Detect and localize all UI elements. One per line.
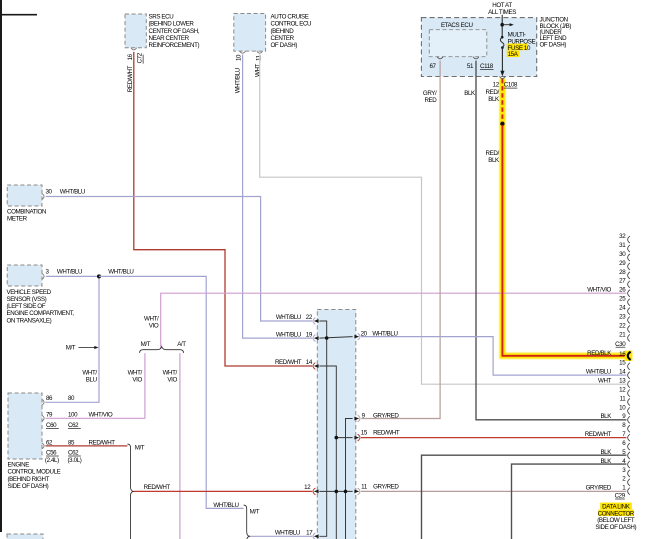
svg-text:WHT/: WHT/ bbox=[144, 316, 159, 323]
svg-text:CONTROL MODULE: CONTROL MODULE bbox=[8, 469, 61, 476]
ETACS bump pin 51 bbox=[473, 57, 479, 59]
svg-text:WHT/BLU: WHT/BLU bbox=[276, 314, 301, 321]
svg-text:CENTER OF DASH,: CENTER OF DASH, bbox=[149, 28, 200, 35]
ETACS bump pin 67 bbox=[437, 57, 443, 59]
joint connector female pin 20 bbox=[358, 333, 360, 340]
junction node hot feed bbox=[500, 23, 504, 27]
svg-text:22: 22 bbox=[306, 314, 313, 321]
wire RED/WHT joint pin 15 to DLC pin 7 bbox=[361, 437, 626, 439]
wire WHT/BLU VSS node to merge brace bbox=[99, 276, 244, 508]
wire RED/BLK highlighted to DLC pin 16 bbox=[502, 125, 627, 356]
svg-text:RED/BLK: RED/BLK bbox=[587, 350, 612, 357]
svg-text:(2.4L): (2.4L) bbox=[45, 457, 59, 464]
svg-text:80: 80 bbox=[68, 395, 75, 402]
svg-text:22: 22 bbox=[619, 322, 626, 329]
svg-text:ON TRANSAXLE): ON TRANSAXLE) bbox=[7, 317, 52, 324]
svg-text:BLK: BLK bbox=[488, 96, 500, 103]
joint connector internal pin19-20 bbox=[319, 337, 352, 339]
svg-text:26: 26 bbox=[619, 287, 626, 294]
svg-text:14: 14 bbox=[306, 359, 313, 366]
wire WHT/BLU joint pin 20 to DLC pin 14 bbox=[361, 337, 626, 376]
cruise bump pin 10 bbox=[240, 51, 246, 53]
svg-text:79: 79 bbox=[46, 412, 53, 419]
data link connector text bbox=[600, 503, 632, 510]
svg-text:30: 30 bbox=[46, 188, 53, 195]
svg-text:WHT/: WHT/ bbox=[163, 369, 178, 376]
joint connector female pin 14 bbox=[313, 363, 315, 370]
junction node RED/BLK bbox=[500, 122, 504, 126]
svg-text:M/T: M/T bbox=[135, 445, 145, 452]
svg-text:VIO: VIO bbox=[167, 376, 177, 383]
joint connector male pin left y321.0 bbox=[314, 319, 319, 323]
svg-text:23: 23 bbox=[619, 313, 626, 320]
wire BLK offpage to DLC pin 5 bbox=[422, 455, 627, 539]
svg-text:REINFORCEMENT): REINFORCEMENT) bbox=[149, 42, 200, 49]
wire WHT/VIO A/T branch off-page bbox=[179, 353, 181, 539]
svg-text:30: 30 bbox=[619, 251, 626, 258]
svg-text:RED/WHT: RED/WHT bbox=[373, 430, 400, 437]
wire WHT/VIO M/T branch to ECM pin 79/100 bbox=[45, 353, 144, 418]
joint connector internal pin15 stub bbox=[336, 437, 352, 439]
svg-text:100: 100 bbox=[68, 412, 78, 419]
wire WHT/VIO to DLC pin 26 bbox=[161, 293, 627, 349]
svg-text:10: 10 bbox=[619, 404, 626, 411]
joint connector male pin left y338.1 bbox=[314, 336, 319, 340]
svg-text:C62: C62 bbox=[68, 422, 79, 429]
wire WHT/BLU VSS to ECM pin 86/80 bbox=[45, 276, 99, 402]
svg-text:28: 28 bbox=[619, 269, 626, 276]
svg-text:BLK: BLK bbox=[464, 90, 476, 97]
svg-text:M/T: M/T bbox=[250, 509, 260, 516]
SRS ECU box bbox=[125, 14, 146, 48]
VSS bump pin 3 bbox=[42, 274, 44, 280]
auto cruise control ECU box bbox=[234, 14, 266, 52]
svg-text:A/T: A/T bbox=[177, 341, 186, 348]
svg-text:25: 25 bbox=[619, 296, 626, 303]
svg-text:WHT: WHT bbox=[598, 378, 612, 385]
svg-text:RED/WHT: RED/WHT bbox=[275, 359, 302, 366]
svg-text:10: 10 bbox=[236, 54, 243, 61]
joint connector box bbox=[317, 310, 356, 539]
svg-text:RED/WHT: RED/WHT bbox=[144, 484, 171, 491]
svg-text:ETACS ECU: ETACS ECU bbox=[441, 22, 473, 29]
svg-text:CONTROL ECU: CONTROL ECU bbox=[271, 21, 312, 28]
joint connector male pin right y491.4 bbox=[354, 490, 359, 494]
ETACS ECU inner box bbox=[429, 30, 487, 57]
svg-text:(BEHIND RIGHT: (BEHIND RIGHT bbox=[8, 476, 50, 483]
svg-text:WHT/BLU: WHT/BLU bbox=[60, 188, 85, 195]
svg-text:15A: 15A bbox=[508, 51, 519, 58]
combination meter box bbox=[7, 185, 42, 206]
svg-text:SIDE OF DASH): SIDE OF DASH) bbox=[8, 483, 49, 490]
svg-text:12: 12 bbox=[304, 484, 311, 491]
joint connector internal bus B bbox=[319, 366, 336, 539]
svg-text:GRY/RED: GRY/RED bbox=[586, 485, 612, 492]
svg-text:15: 15 bbox=[361, 430, 368, 437]
svg-text:13: 13 bbox=[619, 378, 626, 385]
svg-text:WHT/VIO: WHT/VIO bbox=[89, 412, 113, 419]
svg-text:27: 27 bbox=[619, 278, 626, 285]
svg-text:OF DASH): OF DASH) bbox=[540, 41, 567, 48]
svg-text:SIDE OF DASH): SIDE OF DASH) bbox=[595, 524, 636, 531]
svg-text:SRS ECU: SRS ECU bbox=[149, 14, 174, 21]
svg-text:CENTER: CENTER bbox=[271, 35, 295, 42]
svg-text:WHT/BLU: WHT/BLU bbox=[275, 529, 300, 536]
svg-text:WHT/BLU: WHT/BLU bbox=[586, 369, 611, 376]
joint connector male pin left y491.4 bbox=[314, 490, 319, 494]
junction node VSS bbox=[97, 274, 101, 278]
svg-text:11: 11 bbox=[361, 484, 368, 491]
wire WHT/BLU meter to joint pin 22 bbox=[46, 197, 312, 322]
fuse 10 element bbox=[501, 36, 504, 39]
junction node bus A pin19 bbox=[325, 336, 329, 340]
svg-text:(BEHIND LOWER: (BEHIND LOWER bbox=[149, 21, 195, 28]
RED/WHT merge brace bbox=[127, 444, 134, 539]
arrow down to C108 bbox=[500, 71, 504, 76]
wire hot feed into J/B bbox=[501, 15, 503, 37]
junction node bus B pin15 bbox=[335, 436, 339, 440]
svg-text:WHT/BLU: WHT/BLU bbox=[235, 68, 242, 93]
svg-text:ENGINE COMPARTMENT,: ENGINE COMPARTMENT, bbox=[7, 310, 75, 317]
wire fuse to connector C108 bbox=[501, 48, 503, 72]
svg-text:C29: C29 bbox=[615, 493, 626, 500]
svg-text:WHT/: WHT/ bbox=[82, 369, 97, 376]
junction node bus B pin11 bbox=[335, 490, 339, 494]
svg-text:WHT/BLU: WHT/BLU bbox=[213, 502, 238, 509]
svg-text:SENSOR (VSS): SENSOR (VSS) bbox=[7, 296, 47, 303]
svg-text:(BEHIND: (BEHIND bbox=[271, 28, 295, 35]
joint connector female pin 19 bbox=[313, 335, 315, 342]
cruise bump pin 11 bbox=[257, 51, 263, 53]
M/T A/T branch brace bbox=[140, 347, 184, 353]
joint connector male pin right y336.6 bbox=[354, 335, 359, 339]
bottom component box (partial) bbox=[7, 534, 43, 539]
engine control module box bbox=[8, 393, 42, 459]
svg-text:C60: C60 bbox=[46, 422, 57, 429]
vehicle speed sensor box bbox=[7, 265, 42, 286]
joint connector female pin 22 bbox=[313, 318, 315, 325]
svg-text:14: 14 bbox=[619, 369, 626, 376]
svg-text:31: 31 bbox=[619, 242, 626, 249]
svg-text:WHT/BLU: WHT/BLU bbox=[108, 268, 133, 275]
svg-text:BLK: BLK bbox=[600, 449, 612, 456]
svg-text:WHT/BLU: WHT/BLU bbox=[57, 268, 82, 275]
svg-text:BLU: BLU bbox=[86, 376, 97, 383]
svg-text:AUTO CRUISE: AUTO CRUISE bbox=[271, 14, 309, 21]
svg-text:29: 29 bbox=[619, 260, 626, 267]
joint connector internal bus A bbox=[319, 321, 326, 536]
svg-text:32: 32 bbox=[619, 233, 626, 240]
svg-text:COMBINATION: COMBINATION bbox=[7, 208, 46, 215]
wire GRY/RED joint pin 11 to DLC pin 1 bbox=[361, 490, 626, 492]
svg-text:VIO: VIO bbox=[132, 376, 142, 383]
svg-text:BLK: BLK bbox=[600, 458, 612, 465]
joint connector female pin 17 bbox=[313, 533, 315, 539]
highlight band RED/BLK fuse-to-DLC bbox=[502, 79, 629, 356]
svg-text:11: 11 bbox=[255, 54, 262, 61]
svg-text:12: 12 bbox=[493, 82, 500, 89]
wire BLK offpage to DLC pin 4 bbox=[512, 464, 627, 539]
svg-text:WHT/BLU: WHT/BLU bbox=[276, 331, 301, 338]
svg-text:(LEFT SIDE OF: (LEFT SIDE OF bbox=[7, 303, 46, 310]
svg-text:ALL TIMES: ALL TIMES bbox=[488, 9, 516, 16]
arrow to other circuits bbox=[502, 24, 510, 26]
svg-text:86: 86 bbox=[46, 395, 53, 402]
svg-text:(3.0L): (3.0L) bbox=[68, 457, 82, 464]
joint connector internal bus C bbox=[346, 419, 353, 539]
svg-text:C30: C30 bbox=[615, 341, 626, 348]
joint connector internal pin12-11 bbox=[319, 490, 352, 492]
wire GRY/RED ETACS pin 67 to joint pin 9 bbox=[361, 61, 440, 419]
wire WHT cruise pin11 to DLC pin 13 bbox=[260, 55, 627, 385]
data link connector pin 16 highlighted bbox=[625, 351, 633, 361]
svg-text:VIO: VIO bbox=[149, 323, 159, 330]
svg-text:24: 24 bbox=[619, 305, 626, 312]
junction node bus C pin11 bbox=[344, 490, 348, 494]
joint connector female pin 9 bbox=[358, 415, 360, 422]
svg-text:RED/WHT: RED/WHT bbox=[585, 431, 612, 438]
svg-text:GRY/: GRY/ bbox=[423, 90, 437, 97]
meter bump pin 30 bbox=[42, 194, 44, 200]
svg-text:GRY/RED: GRY/RED bbox=[373, 484, 399, 491]
wire RED/BLK highlighted fuse feed dashed bbox=[501, 79, 503, 123]
svg-text:RED/WHT: RED/WHT bbox=[127, 65, 134, 92]
svg-text:C62: C62 bbox=[68, 450, 79, 457]
joint connector female pin 11 bbox=[358, 488, 360, 495]
joint connector female pin 12 bbox=[313, 488, 315, 495]
svg-text:C56: C56 bbox=[46, 450, 57, 457]
ECM bump pin 62/85 bbox=[42, 443, 44, 449]
svg-text:16: 16 bbox=[619, 351, 626, 358]
joint connector male pin right y418.5 bbox=[354, 417, 359, 421]
svg-text:BLK: BLK bbox=[488, 157, 500, 164]
svg-text:WHT/: WHT/ bbox=[128, 369, 143, 376]
MULTI-PURPOSE FUSE 10 15A label bbox=[507, 44, 528, 51]
joint connector female pin 15 bbox=[358, 434, 360, 441]
ECM bump pin 86/80 bbox=[42, 399, 44, 405]
svg-text:21: 21 bbox=[619, 331, 626, 338]
wire WHT/BLU cruise pin10 to joint pin 19 bbox=[243, 55, 313, 339]
svg-text:M/T: M/T bbox=[66, 345, 76, 352]
svg-text:VEHICLE SPEED: VEHICLE SPEED bbox=[7, 289, 52, 296]
wire WHT/BLU merged to joint pin 17 bbox=[250, 535, 312, 537]
svg-text:BLK: BLK bbox=[600, 413, 612, 420]
svg-text:RED: RED bbox=[424, 97, 437, 104]
svg-text:19: 19 bbox=[306, 331, 313, 338]
svg-text:C72: C72 bbox=[137, 52, 144, 63]
svg-text:OF DASH): OF DASH) bbox=[271, 42, 298, 49]
svg-text:ENGINE: ENGINE bbox=[8, 462, 30, 469]
svg-text:12: 12 bbox=[619, 386, 626, 393]
svg-text:16: 16 bbox=[127, 53, 134, 60]
junction block J/B box bbox=[421, 18, 536, 77]
svg-text:RED/: RED/ bbox=[486, 150, 500, 157]
svg-text:17: 17 bbox=[306, 529, 313, 536]
wire BLK ETACS pin 51 to DLC pin 9 bbox=[476, 61, 626, 420]
joint connector male pin left y536.3 bbox=[314, 534, 319, 538]
svg-text:C108: C108 bbox=[504, 82, 518, 89]
wire RED/WHT SRS to joint pin 14 bbox=[134, 52, 312, 366]
svg-text:NEAR CENTER: NEAR CENTER bbox=[149, 35, 190, 42]
svg-text:C118: C118 bbox=[480, 63, 494, 70]
wire RED/WHT merged to joint pin 12 bbox=[134, 490, 312, 492]
joint connector male pin right y437.6 bbox=[354, 436, 359, 440]
svg-text:67: 67 bbox=[430, 63, 437, 70]
svg-text:M/T: M/T bbox=[141, 341, 151, 348]
svg-text:METER: METER bbox=[7, 216, 28, 223]
svg-text:WHT/VIO: WHT/VIO bbox=[587, 287, 611, 294]
J/B bottom bump C108 bbox=[500, 77, 506, 79]
WHT/BLU merge brace bbox=[244, 505, 251, 539]
svg-text:11: 11 bbox=[620, 395, 627, 402]
wire RED/WHT ECM pin 62/85 to merge brace bbox=[45, 445, 127, 447]
joint connector male pin left y366.0 bbox=[314, 364, 319, 368]
SRS ECU connector bump pin 16 bbox=[131, 48, 137, 50]
svg-text:RED/: RED/ bbox=[486, 89, 500, 96]
ECM bump pin 79/100 bbox=[42, 415, 44, 421]
svg-text:51: 51 bbox=[467, 63, 474, 70]
